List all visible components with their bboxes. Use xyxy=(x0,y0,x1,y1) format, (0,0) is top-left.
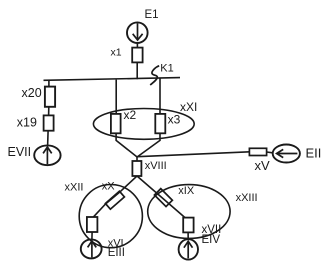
zone circle xXII xyxy=(79,185,142,248)
svg-text:xVIII: xVIII xyxy=(145,160,167,172)
bus wire xyxy=(44,78,181,81)
svg-text:xIX: xIX xyxy=(178,185,195,197)
wire x2 to node xyxy=(116,133,137,157)
reactance xVI xyxy=(87,217,98,232)
reactance x19 xyxy=(44,115,54,130)
reactance x2 xyxy=(111,114,121,133)
source E1 xyxy=(127,22,148,43)
zone ellipse xXIII xyxy=(148,185,230,239)
wire x20 to x19 xyxy=(48,107,50,116)
svg-text:x20: x20 xyxy=(22,86,42,100)
fault K1 xyxy=(150,66,159,85)
reactance xIX xyxy=(154,189,172,207)
svg-text:xXII: xXII xyxy=(65,181,84,193)
wire bus to x2 xyxy=(115,80,117,114)
source EIII xyxy=(81,239,102,258)
wire x19 to EVII xyxy=(47,131,50,146)
svg-text:EIV: EIV xyxy=(202,234,221,246)
svg-text:xXI: xXI xyxy=(180,100,197,114)
svg-text:EII: EII xyxy=(306,145,322,160)
svg-text:xXIII: xXIII xyxy=(236,192,258,204)
svg-text:EVII: EVII xyxy=(8,145,32,159)
wire node to xVIII xyxy=(136,157,138,161)
svg-text:x1: x1 xyxy=(111,47,122,59)
svg-text:EIII: EIII xyxy=(108,247,125,259)
reactance xV xyxy=(249,148,266,155)
svg-text:K1: K1 xyxy=(160,62,173,74)
wire xV to EII xyxy=(267,151,273,154)
svg-text:xX: xX xyxy=(102,181,116,193)
source EII xyxy=(273,145,300,163)
svg-text:x3: x3 xyxy=(168,112,181,126)
source EVII xyxy=(34,145,60,165)
source EIV xyxy=(179,239,198,259)
svg-text:E1: E1 xyxy=(145,9,159,21)
zone ellipse xXI xyxy=(93,109,194,140)
reactance x20 xyxy=(45,87,55,107)
reactance xVII xyxy=(183,218,193,233)
wire E1 to x1 xyxy=(136,43,138,48)
wire bus to x20 xyxy=(48,80,50,87)
reactance xX xyxy=(105,191,124,209)
wire x3 to node xyxy=(137,133,160,157)
wire xVII to EIV xyxy=(187,232,189,240)
wire x1 to bus xyxy=(136,62,138,79)
wire node to xV xyxy=(137,152,249,157)
svg-text:x19: x19 xyxy=(17,116,37,130)
wire xVIII to xVII branch xyxy=(137,176,185,218)
reactance x3 xyxy=(155,114,165,133)
svg-text:x2: x2 xyxy=(124,108,137,122)
svg-text:xV: xV xyxy=(255,158,271,173)
reactance x1 xyxy=(132,48,142,63)
wire bus to x3 xyxy=(159,78,161,114)
reactance xVIII xyxy=(132,161,141,176)
wire xVI to EIII xyxy=(91,232,93,240)
wire xVIII to xVI branch xyxy=(93,176,137,217)
